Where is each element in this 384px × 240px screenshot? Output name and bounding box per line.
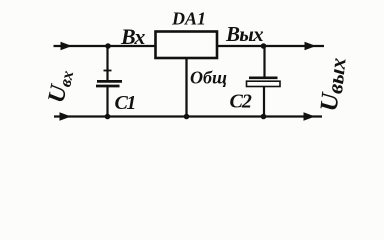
- capacitor C1: polarity plus tick: [104, 70, 112, 72]
- capacitor C2: top plate: [249, 77, 278, 80]
- wire: bottom common rail: [54, 115, 322, 117]
- wire: common lead from DA1 bottom to bottom rail: [185, 59, 187, 117]
- junction: bottom rail to C2: [261, 114, 267, 120]
- wire: C2 lower lead: [263, 87, 265, 117]
- wire: top output wire from DA1 Вых pin to right terminal: [218, 45, 324, 47]
- IC DA1: voltage regulator body: [156, 32, 218, 59]
- arrow: bottom-right terminal: [304, 112, 316, 120]
- capacitor C1: top plate: [97, 80, 122, 83]
- wire: C1 lower lead: [106, 87, 108, 117]
- junction: top rail to C1: [105, 43, 111, 49]
- svg-text:C2: C2: [230, 91, 252, 113]
- svg-text:DA1: DA1: [171, 9, 206, 29]
- svg-text:Uвх: Uвх: [43, 67, 77, 106]
- junction: bottom rail to C1: [105, 114, 111, 120]
- wire: top input wire from left terminal to DA1 Вх pin: [54, 45, 155, 47]
- svg-text:C1: C1: [115, 92, 135, 114]
- capacitor C1: bottom plate: [96, 85, 120, 88]
- arrow: output current direction, top-right terminal: [305, 42, 317, 50]
- wire: C1 upper lead: [106, 46, 108, 80]
- junction: bottom rail to common lead: [184, 114, 190, 120]
- wire: C2 upper lead: [263, 46, 265, 78]
- arrow: input current direction, top-left terminal: [61, 42, 73, 50]
- arrow: bottom-left terminal: [60, 112, 72, 120]
- svg-text:Uвых: Uвых: [316, 56, 351, 113]
- capacitor C2: bottom plate (hollow rectangle, electrolytic): [247, 81, 281, 86]
- svg-text:Общ: Общ: [190, 68, 227, 88]
- svg-text:Вх: Вх: [120, 24, 145, 49]
- svg-text:Вых: Вых: [225, 22, 263, 46]
- junction: top rail to C2: [261, 43, 267, 49]
